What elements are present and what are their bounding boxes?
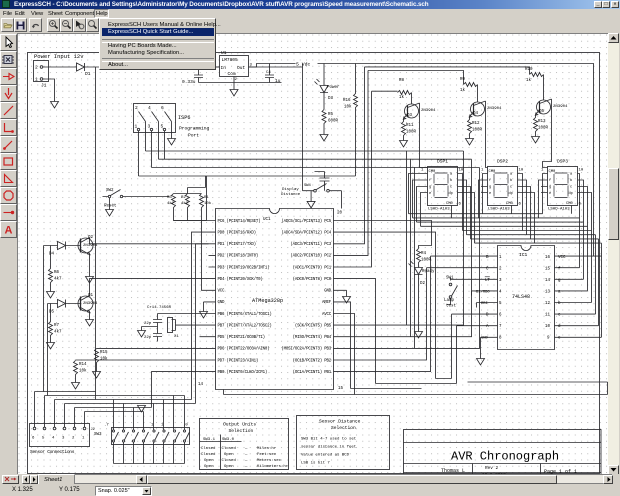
svg-text:CM0: CM0 (489, 170, 497, 174)
svg-text:ISP6: ISP6 (178, 115, 190, 121)
svg-text:PD0 (PCINT16/RXD): PD0 (PCINT16/RXD) (218, 230, 256, 235)
svg-text:SW3.1: SW3.1 (203, 438, 216, 442)
svg-text:SW3: SW3 (94, 433, 102, 437)
svg-text:1u: 1u (275, 78, 281, 84)
svg-text:LSHD-A103: LSHD-A103 (548, 208, 570, 212)
svg-text:R8: R8 (399, 79, 405, 83)
svg-text:DSP1: DSP1 (437, 159, 448, 165)
svg-text:PD6 (PCINT22/OC0A/AIN0): PD6 (PCINT22/OC0A/AIN0) (218, 347, 270, 352)
svg-text:—: — (244, 447, 248, 451)
svg-text:D3: D3 (328, 97, 334, 101)
svg-text:Reset: Reset (104, 205, 117, 209)
svg-text:C4: C4 (266, 71, 271, 75)
svg-text:PD3 (PCINT19/OC2B/INT1): PD3 (PCINT19/OC2B/INT1) (218, 265, 270, 270)
svg-text:e: e (429, 192, 431, 196)
svg-text:16: 16 (545, 256, 551, 260)
svg-text:VCC: VCC (558, 256, 566, 260)
svg-text:dp: dp (509, 191, 513, 196)
svg-text:R14: R14 (79, 363, 87, 367)
svg-text:1: 1 (35, 77, 38, 83)
svg-text:D1: D1 (85, 71, 91, 77)
svg-text:R2: R2 (181, 196, 186, 200)
svg-text:Open: Open (204, 459, 214, 463)
svg-text:Out: Out (237, 65, 245, 71)
svg-text:R16: R16 (343, 99, 351, 103)
svg-text:.7: .7 (104, 424, 109, 428)
svg-text:R6: R6 (54, 271, 60, 275)
svg-text:LM7805: LM7805 (222, 57, 239, 63)
svg-text:2N3904: 2N3904 (83, 244, 98, 248)
svg-text:2N3904: 2N3904 (553, 105, 568, 109)
svg-text:e: e (489, 192, 491, 196)
svg-text:UC1: UC1 (263, 218, 271, 222)
svg-text:(ADC5/SCL/PCINT13) PC5: (ADC5/SCL/PCINT13) PC5 (281, 219, 331, 224)
svg-text:15: 15 (545, 268, 551, 272)
svg-text:SW3 Bit 4-7 used to set: SW3 Bit 4-7 used to set (301, 437, 356, 442)
svg-text:b: b (510, 178, 512, 183)
svg-text:PB7 (PCINT7/XTAL2/TOSC2): PB7 (PCINT7/XTAL2/TOSC2) (218, 323, 272, 328)
svg-text:D2: D2 (420, 282, 426, 286)
svg-text:15: 15 (338, 387, 344, 391)
svg-text:Programming: Programming (179, 126, 210, 132)
svg-text:10k: 10k (100, 357, 108, 362)
svg-text:Display: Display (282, 187, 299, 192)
svg-text:c: c (450, 186, 452, 190)
svg-text:100R: 100R (538, 127, 549, 131)
svg-text:10: 10 (459, 169, 464, 173)
svg-text:5: 5 (161, 124, 164, 130)
svg-text:Selection: Selection (331, 425, 356, 431)
svg-text:AVR Chronograph: AVR Chronograph (451, 450, 559, 464)
svg-text:.0: .0 (183, 424, 188, 428)
svg-text:Q2: Q2 (88, 236, 94, 240)
svg-text:Kilometers:hr: Kilometers:hr (257, 464, 289, 469)
svg-text:AVCC: AVCC (322, 313, 332, 317)
svg-text:b: b (450, 178, 452, 183)
svg-text:BI/RBO: BI/RBO (476, 290, 490, 295)
svg-text:SW3.0: SW3.0 (222, 438, 235, 442)
svg-text:14: 14 (198, 383, 204, 387)
svg-text:13: 13 (545, 291, 551, 295)
svg-text:Sensor Distance: Sensor Distance (319, 419, 361, 425)
svg-text:e: e (549, 192, 551, 196)
svg-text:R12: R12 (472, 122, 480, 126)
svg-text:R3: R3 (167, 196, 172, 200)
svg-text:Power Input 12v: Power Input 12v (34, 53, 84, 60)
svg-text:g: g (489, 186, 491, 190)
svg-text:Selection: Selection (229, 428, 254, 434)
svg-text:g: g (549, 186, 551, 190)
svg-text:Output Units: Output Units (223, 422, 256, 428)
svg-text:1: 1 (135, 124, 138, 130)
svg-text:PD5 (PCINT21/OC0B/T1): PD5 (PCINT21/OC0B/T1) (218, 335, 265, 340)
svg-text:R1: R1 (204, 196, 209, 200)
svg-text:—: — (244, 459, 248, 463)
svg-text:Q4: Q4 (473, 112, 479, 116)
svg-text:Sensor Connections: Sensor Connections (30, 449, 75, 455)
svg-text:U1: U1 (221, 50, 227, 56)
svg-text:(MOSI/OC2A/PCINT3) PB3: (MOSI/OC2A/PCINT3) PB3 (281, 347, 331, 352)
svg-text:Meters:sec: Meters:sec (257, 458, 282, 463)
svg-text:R15: R15 (100, 351, 108, 355)
svg-text:Open: Open (204, 465, 214, 469)
svg-text:12: 12 (545, 302, 551, 306)
svg-text:11: 11 (545, 314, 551, 318)
svg-text:PB6 (PCINT6/XTAL1/TOSC1): PB6 (PCINT6/XTAL1/TOSC1) (218, 312, 272, 317)
svg-text:Com: Com (228, 71, 236, 77)
svg-text:(ADC0/PCINT8) PC0: (ADC0/PCINT8) PC0 (293, 277, 332, 282)
svg-text:PD4 (PCINT20/XCK/T0): PD4 (PCINT20/XCK/T0) (218, 277, 263, 282)
svg-text:10: 10 (545, 325, 551, 329)
svg-text:(ADC4/SDA/PCINT12) PC4: (ADC4/SDA/PCINT12) PC4 (281, 230, 331, 235)
svg-text:PB0 (PCINT0/CLKO/ICP1): PB0 (PCINT0/CLKO/ICP1) (218, 370, 268, 375)
svg-text:Ready: Ready (422, 269, 435, 274)
svg-text:2N3904: 2N3904 (421, 109, 436, 113)
svg-text:g: g (429, 186, 431, 190)
svg-text:(OC1A/PCINT1) PB1: (OC1A/PCINT1) PB1 (293, 370, 332, 375)
svg-text:6: 6 (161, 105, 164, 111)
svg-text:4k7: 4k7 (181, 201, 189, 206)
svg-text:Q1: Q1 (88, 294, 94, 298)
svg-text:Q3: Q3 (407, 114, 413, 118)
svg-text:2: 2 (35, 65, 38, 71)
svg-text:GND: GND (218, 301, 226, 305)
svg-text:LSHD-A103: LSHD-A103 (488, 208, 510, 212)
svg-text:100R: 100R (406, 131, 417, 135)
svg-text:Distance: Distance (281, 192, 301, 197)
svg-text:14: 14 (545, 279, 551, 283)
svg-text:D5: D5 (49, 311, 55, 315)
svg-text:Q5: Q5 (539, 110, 545, 114)
svg-text:b: b (570, 178, 572, 183)
svg-text:Lamp: Lamp (444, 299, 455, 303)
svg-text:2N3904: 2N3904 (83, 302, 98, 306)
svg-text:LT: LT (485, 279, 491, 283)
svg-text:In: In (221, 65, 227, 71)
svg-text:4: 4 (148, 105, 151, 111)
svg-text:GND: GND (324, 290, 332, 294)
svg-text:Open: Open (224, 465, 234, 469)
svg-text:—: — (244, 453, 248, 457)
svg-text:R5: R5 (328, 113, 334, 117)
svg-text:test: test (446, 305, 457, 309)
svg-text:4k7: 4k7 (54, 330, 62, 335)
svg-text:PC6 (PCINT14/RESET): PC6 (PCINT14/RESET) (218, 219, 261, 224)
svg-text:0.33u: 0.33u (182, 79, 196, 85)
svg-text:(MISO/PCINT4) PB4: (MISO/PCINT4) PB4 (293, 335, 332, 340)
svg-text:ATMega328p: ATMega328p (252, 298, 283, 304)
svg-text:D4: D4 (49, 253, 55, 257)
svg-text:2N3904: 2N3904 (487, 107, 502, 111)
svg-text:Open: Open (224, 453, 234, 457)
svg-text:Feet:sec: Feet:sec (257, 453, 277, 457)
svg-text:Cr14.7456R: Cr14.7456R (147, 305, 172, 310)
svg-text:f: f (549, 178, 551, 183)
svg-text:(SCK/PCINT5) PB5: (SCK/PCINT5) PB5 (295, 323, 332, 328)
svg-text:CM0: CM0 (566, 202, 574, 206)
svg-text:4k7: 4k7 (167, 201, 175, 206)
svg-text:IC1: IC1 (519, 252, 528, 258)
svg-text:dp: dp (569, 191, 573, 196)
svg-text:SW1: SW1 (446, 277, 454, 281)
svg-text:22p: 22p (144, 336, 152, 340)
svg-text:J2: J2 (91, 428, 95, 432)
svg-text:PD1 (PCINT17/TXD): PD1 (PCINT17/TXD) (218, 242, 256, 247)
svg-text:SW2: SW2 (106, 189, 114, 193)
svg-text:VCC: VCC (218, 290, 226, 294)
svg-text:R9: R9 (460, 78, 466, 82)
svg-text:4k7: 4k7 (54, 277, 62, 282)
svg-text:(OC1B/PCINT2) PB2: (OC1B/PCINT2) PB2 (293, 358, 332, 363)
svg-text:10k: 10k (344, 105, 352, 110)
svg-text:Port: Port (188, 133, 199, 139)
svg-text:sensor distance in feet: sensor distance in feet (301, 445, 356, 450)
svg-text:20: 20 (337, 212, 343, 216)
svg-text:100R: 100R (472, 129, 483, 133)
svg-text:CM0: CM0 (446, 202, 454, 206)
svg-text:1k: 1k (526, 78, 532, 83)
svg-text:5 Vdc: 5 Vdc (296, 62, 311, 68)
svg-text:Closed: Closed (201, 446, 216, 451)
svg-text:LSB is bit 7: LSB is bit 7 (301, 461, 330, 466)
svg-text:1k: 1k (460, 88, 466, 93)
svg-text:Miles:hr: Miles:hr (257, 446, 277, 451)
svg-text:(ADC2/PCINT10) PC2: (ADC2/PCINT10) PC2 (290, 254, 331, 259)
svg-text:c: c (570, 186, 572, 190)
svg-text:10k: 10k (79, 369, 87, 374)
svg-text:10: 10 (519, 169, 524, 173)
svg-text:LSHD-A103: LSHD-A103 (428, 208, 450, 212)
svg-text:74LS48: 74LS48 (512, 294, 530, 300)
svg-text:f: f (489, 178, 491, 183)
svg-text:PD2 (PCINT18/INT0): PD2 (PCINT18/INT0) (218, 254, 259, 259)
svg-text:DSP3: DSP3 (557, 159, 568, 165)
svg-text:Power: Power (327, 86, 340, 90)
svg-text:10: 10 (579, 169, 584, 173)
svg-text:f: f (429, 178, 431, 183)
svg-text:dp: dp (449, 191, 453, 196)
svg-text:Closed: Closed (222, 458, 237, 463)
svg-text:R11: R11 (406, 124, 414, 128)
svg-text:AREF: AREF (322, 301, 332, 305)
svg-text:R10: R10 (525, 68, 533, 72)
svg-text:100R: 100R (421, 259, 432, 263)
svg-text:22p: 22p (144, 322, 152, 326)
svg-text:3: 3 (148, 124, 151, 130)
svg-text:CM0: CM0 (549, 170, 557, 174)
svg-text:X1: X1 (174, 335, 179, 339)
svg-text:Value entered as BCD: Value entered as BCD (301, 453, 350, 458)
svg-text:Closed: Closed (201, 452, 216, 457)
svg-text:R7: R7 (54, 324, 60, 328)
svg-text:c: c (510, 186, 512, 190)
svg-text:RBI: RBI (481, 302, 488, 306)
svg-text:CM0: CM0 (506, 202, 514, 206)
svg-text:(ADC3/PCINT11) PC3: (ADC3/PCINT11) PC3 (290, 242, 331, 247)
svg-text:R13: R13 (538, 120, 546, 124)
svg-text:A: A (5, 225, 13, 237)
svg-text:10k: 10k (204, 201, 212, 206)
svg-text:(ADC1/PCINT9) PC1: (ADC1/PCINT9) PC1 (293, 265, 332, 270)
svg-text:2: 2 (135, 105, 138, 111)
svg-text:—: — (244, 465, 248, 469)
svg-text:CM0: CM0 (429, 170, 437, 174)
svg-text:Rev 2: Rev 2 (485, 466, 499, 471)
svg-text:Closed: Closed (222, 446, 237, 451)
svg-text:DSP2: DSP2 (497, 159, 508, 165)
svg-text:R4: R4 (421, 252, 427, 256)
svg-text:SW4: SW4 (304, 184, 312, 188)
svg-text:J1: J1 (41, 83, 47, 89)
svg-text:600R: 600R (328, 120, 339, 124)
svg-text:1k: 1k (399, 95, 405, 100)
svg-text:PD7 (PCINT23/AIN1): PD7 (PCINT23/AIN1) (218, 358, 259, 363)
svg-text:GND: GND (481, 337, 489, 341)
